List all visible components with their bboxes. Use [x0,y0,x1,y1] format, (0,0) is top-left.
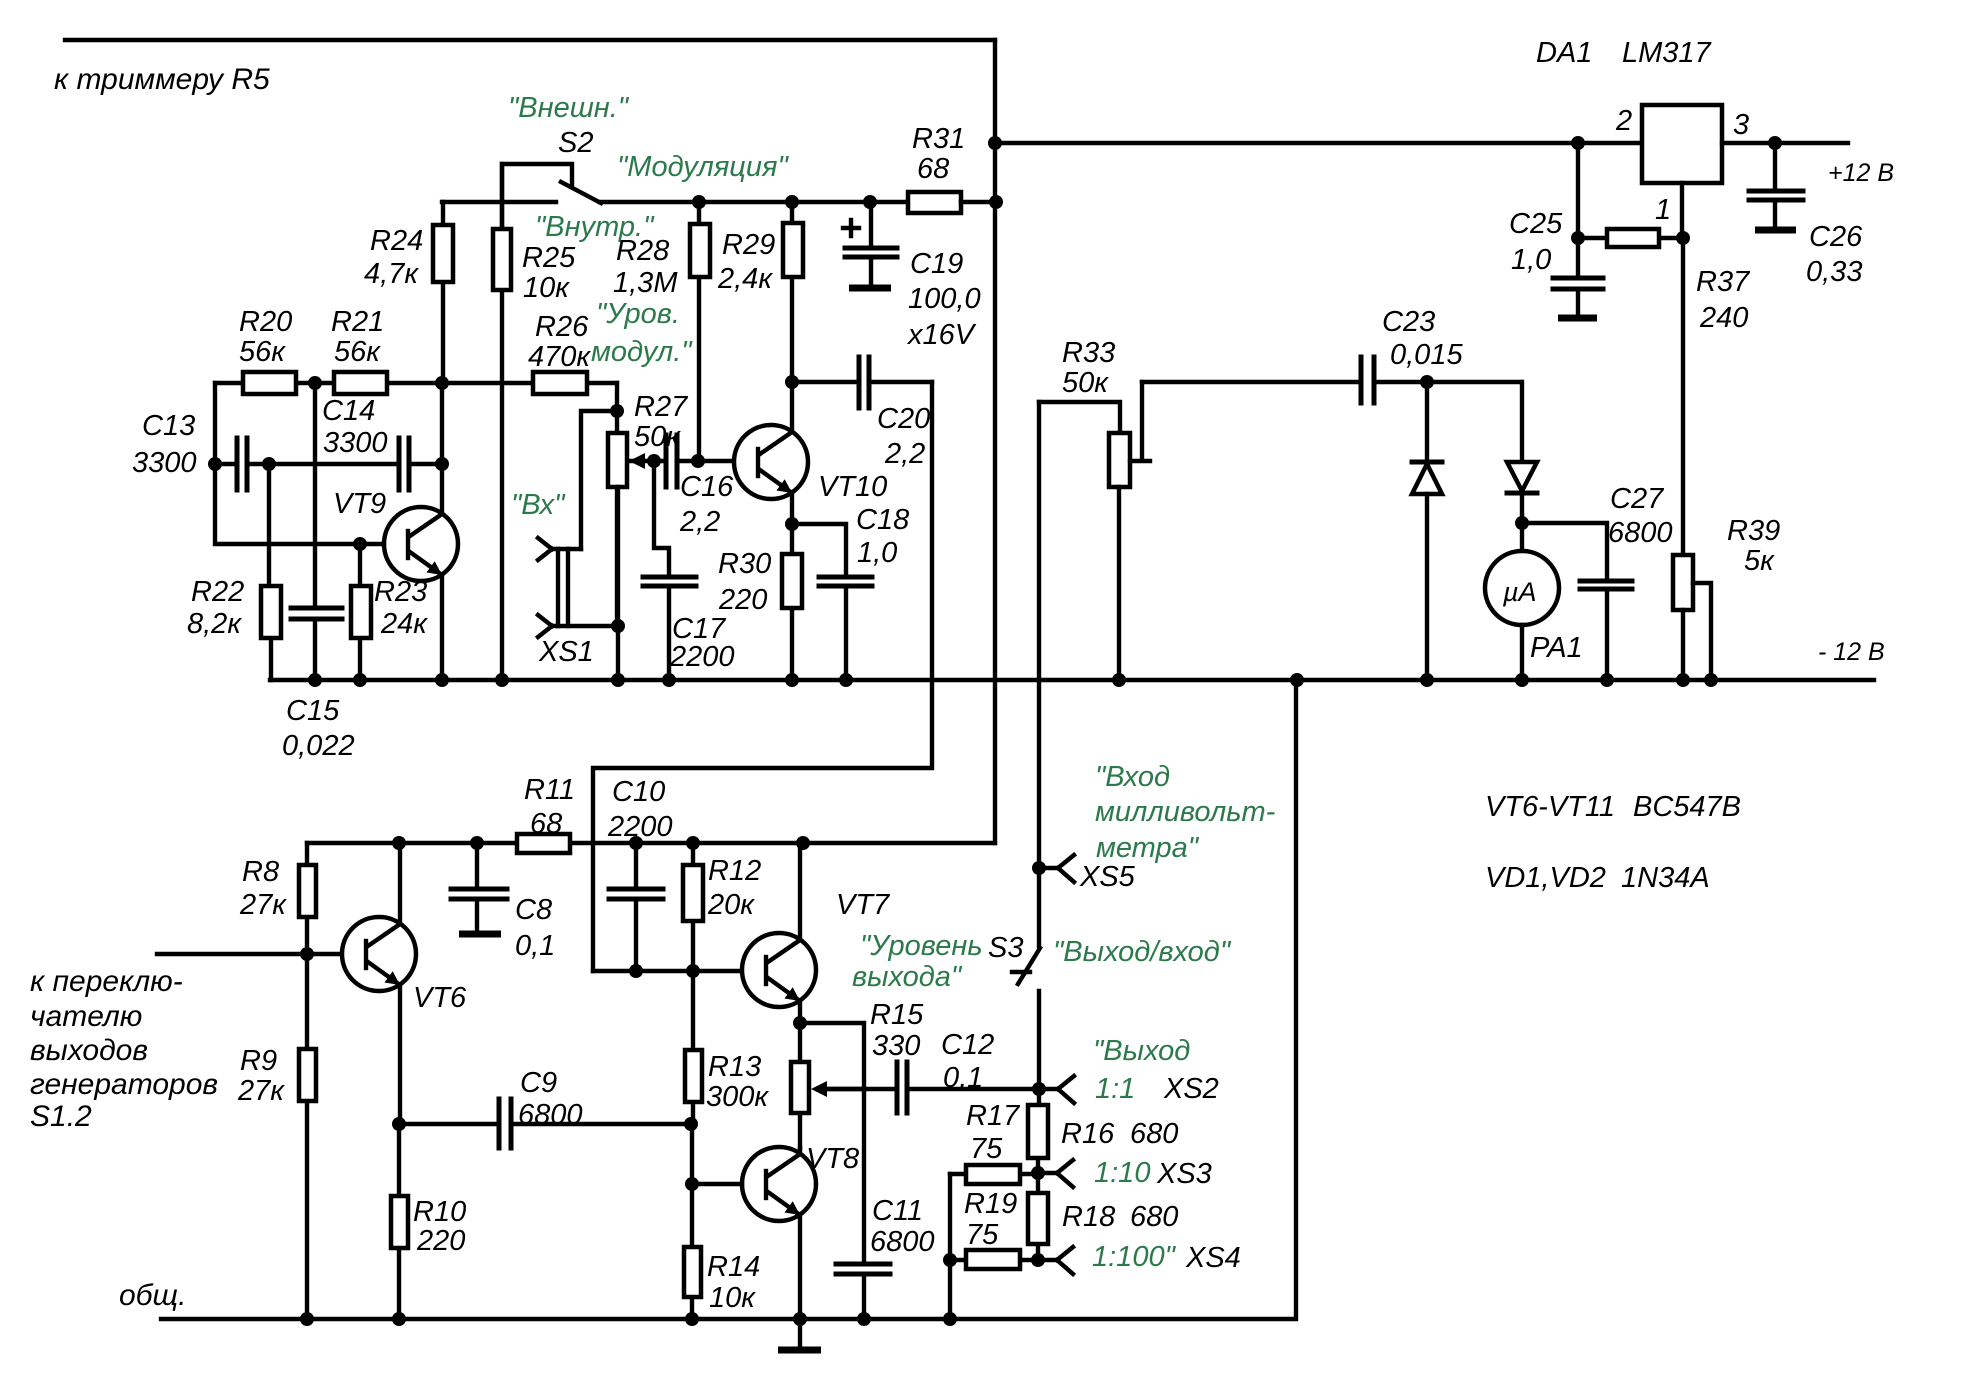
svg-text:VT9: VT9 [333,488,386,520]
node: dot VT7 emitter [793,1016,807,1030]
node: dot C16/R28/VT10 base [691,454,734,468]
svg-text:C20: C20 [877,403,930,435]
resistor R25 [493,164,576,680]
svg-text:C23: C23 [1382,306,1435,338]
resistor R28 [613,202,710,461]
svg-text:0,022: 0,022 [282,730,355,762]
svg-text:220: 220 [416,1225,465,1257]
resistor R11 [517,774,575,853]
svg-text:2: 2 [1615,105,1632,137]
resistor R19 [950,1188,1038,1269]
node: dot VT10 emitter / C18 [785,517,799,531]
capacitor C11 [836,1195,935,1320]
wire: attenuator left leg [943,1174,957,1319]
svg-text:DA1: DA1 [1536,37,1592,69]
svg-text:C13: C13 [142,410,195,442]
resistor R31 [908,123,996,213]
svg-text:2200: 2200 [607,811,673,843]
svg-text:1:1: 1:1 [1095,1073,1135,1105]
resistor R26 [528,311,591,394]
svg-text:68: 68 [917,153,949,185]
svg-text:XS1: XS1 [538,636,594,668]
svg-text:330: 330 [872,1030,920,1062]
text: Модуляция (green) [617,151,790,183]
capacitor C10 [607,776,673,971]
svg-text:R13: R13 [708,1051,761,1083]
svg-text:XS5: XS5 [1079,861,1136,893]
wire: millivoltmeter input line x=1038 [1037,402,1041,946]
svg-text:R22: R22 [191,576,244,608]
svg-text:"Уров.: "Уров. [596,298,680,330]
svg-text:300к: 300к [706,1081,769,1113]
resistor R23 [351,544,428,680]
svg-text:R27: R27 [634,391,689,423]
svg-text:R29: R29 [722,229,775,261]
svg-text:R23: R23 [374,576,427,608]
diode VD1 [1412,382,1442,680]
resistor R30 [718,524,802,680]
resistor R10 [391,1124,466,1319]
svg-text:50к: 50к [1062,367,1109,399]
node: wiper junction dot [647,454,661,468]
resistor R24 [364,202,453,383]
text: Внутр. (green) [535,211,655,243]
wire: VT6 base input [157,947,342,961]
svg-text:1:10: 1:10 [1094,1157,1150,1189]
svg-text:XS3: XS3 [1156,1158,1212,1190]
svg-text:VT6: VT6 [413,982,467,1014]
svg-text:VT7: VT7 [836,889,891,921]
svg-text:1,0: 1,0 [1511,244,1551,276]
switch S3 [988,932,1040,1089]
svg-text:R11: R11 [524,774,575,806]
resistor R16 [1028,1089,1178,1173]
svg-text:R25: R25 [522,242,576,274]
pin 1 label [1655,194,1671,226]
svg-text:R8: R8 [242,856,279,888]
svg-text:75: 75 [966,1219,999,1251]
svg-text:"Вх": "Вх" [511,489,566,521]
svg-text:S1.2: S1.2 [30,1100,92,1133]
svg-text:20к: 20к [707,889,755,921]
svg-text:4,7к: 4,7к [364,258,419,290]
svg-text:2,4к: 2,4к [717,263,773,295]
svg-text:R16: R16 [1061,1118,1115,1150]
svg-text:470к: 470к [528,341,591,373]
wire: left leg down to VT9 base [215,383,384,544]
svg-text:R10: R10 [413,1196,466,1228]
wire: main vertical feed x=995 from top bus down to lower section [993,40,997,843]
svg-text:3: 3 [1733,109,1749,141]
svg-text:220: 220 [718,584,767,616]
text: S2 label [558,127,593,159]
node: dot XS3 [1031,1166,1045,1180]
wire: bottom common rail [161,680,1296,1319]
svg-text:C15: C15 [286,695,340,727]
svg-text:1: 1 [1655,194,1671,226]
svg-text:R24: R24 [370,225,423,257]
resistor R9 [237,954,316,1319]
svg-text:R17: R17 [966,1100,1021,1132]
svg-text:чателю: чателю [30,1000,142,1033]
ground below VT8 emitter [778,1319,821,1350]
svg-text:C8: C8 [515,894,552,926]
svg-text:выходов: выходов [30,1034,148,1067]
svg-text:100,0: 100,0 [908,283,981,315]
capacitor C18 [792,504,909,680]
svg-text:к триммеру R5: к триммеру R5 [54,63,270,96]
svg-text:10к: 10к [709,1282,756,1314]
svg-text:C9: C9 [520,1067,557,1099]
wire: lower section top bus y=843 [307,841,995,845]
text: Вход милливольтметра (green) [1095,761,1275,864]
svg-text:2200: 2200 [669,641,735,673]
text: +12 В [1828,159,1894,187]
capacitor C9 [399,1067,691,1148]
text: - 12 В [1818,638,1885,666]
svg-text:XS4: XS4 [1185,1242,1241,1274]
diode VD2 [1507,382,1537,523]
text: Выход (green) [1093,1035,1190,1067]
node: dot VD2 / PA1 / C27 [1515,516,1529,530]
text: общ. [119,1279,186,1312]
capacitor C14 [262,395,449,490]
connector XS3 [1038,1157,1212,1190]
svg-text:5к: 5к [1744,545,1775,577]
svg-text:"Выход/вход": "Выход/вход" [1053,936,1232,968]
svg-text:µA: µA [1502,577,1537,607]
svg-text:к переклю-: к переклю- [30,965,183,998]
svg-text:"Вход: "Вход [1095,761,1170,793]
node: bottom rail dots [300,1312,957,1326]
svg-text:2,2: 2,2 [679,506,720,538]
svg-text:R31: R31 [912,123,965,155]
svg-text:R26: R26 [535,311,589,343]
node: dot XS4 [1031,1253,1045,1267]
svg-text:R30: R30 [718,548,771,580]
wire: -12V rail [270,678,1874,682]
svg-text:8,2к: 8,2к [187,608,242,640]
svg-text:27к: 27к [237,1075,285,1107]
text: Вх (green) [511,489,566,521]
svg-text:C19: C19 [910,248,963,280]
svg-text:C27: C27 [1610,483,1665,515]
trimmer R39 [1673,515,1780,681]
capacitor C19 (electrolytic) [843,202,981,351]
capacitor C13 [132,410,269,490]
resistor R29 [717,202,803,382]
connector XS1 [538,487,625,680]
connector XS4 [1038,1241,1241,1274]
svg-text:C25: C25 [1509,208,1563,240]
svg-text:LM317: LM317 [1622,37,1713,69]
resistor R17 [950,1100,1038,1184]
wire: DA1 pin1 down to R39 [1682,183,1683,555]
capacitor C17 [643,461,735,680]
svg-text:C16: C16 [680,471,734,503]
IC DA1 LM317 [1536,37,1722,183]
svg-text:R18: R18 [1062,1201,1115,1233]
svg-text:VD1,VD2: VD1,VD2 [1485,862,1606,894]
svg-text:- 12 В: - 12 В [1818,638,1885,666]
svg-text:C11: C11 [872,1195,923,1227]
transistor VT9 [333,383,458,680]
svg-text:R33: R33 [1062,337,1115,369]
svg-text:C26: C26 [1809,221,1863,253]
svg-text:27к: 27к [239,889,287,921]
svg-text:56к: 56к [239,336,286,368]
svg-text:R12: R12 [708,855,761,887]
switch S2 [442,164,908,229]
svg-text:0,015: 0,015 [1390,339,1463,371]
connector XS5 [1032,855,1136,893]
svg-text:3300: 3300 [132,447,197,479]
wire: +12V feed to DA1 [995,141,1642,145]
svg-text:68: 68 [530,808,562,840]
wire: line to trimmer R5 (top bus) [65,38,995,42]
text: to generator outputs switch [30,965,218,1133]
resistor R18 [1028,1173,1178,1260]
capacitor C25 [1509,136,1603,318]
svg-text:2,2: 2,2 [884,438,925,470]
capacitor C27 [1522,483,1673,681]
svg-text:1N34A: 1N34A [1621,862,1710,894]
svg-text:0,33: 0,33 [1806,256,1862,288]
svg-text:10к: 10к [523,272,570,304]
potentiometer R27 [608,391,689,626]
wire: C20 coupling down to lower section [593,382,932,971]
capacitor C26 [1749,143,1863,288]
node: dots on 843 bus [392,836,810,850]
node: dot VT10 collector / C20 [785,375,799,389]
svg-text:75: 75 [970,1133,1003,1165]
svg-text:R37: R37 [1696,266,1751,298]
svg-text:3300: 3300 [323,427,388,459]
potentiometer R33 [1039,337,1150,680]
transistor VT10 [734,382,887,524]
resistor R14 [684,1184,760,1319]
svg-text:"Выход: "Выход [1093,1035,1190,1067]
svg-text:"Уровень: "Уровень [860,930,983,962]
resistor R21 [331,306,387,394]
svg-text:генераторов: генераторов [30,1068,218,1101]
resistor R12 [683,843,761,971]
svg-text:VT6-VT11: VT6-VT11 [1485,791,1615,823]
svg-text:6800: 6800 [870,1226,935,1258]
capacitor C15 [282,383,355,762]
svg-text:общ.: общ. [119,1279,186,1312]
pin 2 label [1615,105,1632,137]
resistor R8 [239,843,316,954]
svg-text:S2: S2 [558,127,593,159]
svg-text:C12: C12 [941,1029,994,1061]
wire: R20/R21 row feed [215,381,617,385]
transistor VT6 [342,843,467,1124]
svg-text:R20: R20 [239,306,292,338]
node: dot R21/R24/VT9 collector [435,376,449,390]
svg-text:24к: 24к [380,608,428,640]
svg-text:680: 680 [1130,1201,1178,1233]
svg-text:S3: S3 [988,932,1023,964]
capacitor C20 [792,357,932,470]
capacitor C23 [1142,306,1521,403]
svg-text:XS2: XS2 [1163,1073,1219,1105]
svg-text:6800: 6800 [1608,517,1673,549]
text: к триммеру R5 [54,63,270,96]
resistor R37 (240) between C25 node and pin 1 [1571,229,1751,334]
transistor VT8 [742,1143,859,1320]
svg-text:выхода": выхода" [852,961,963,993]
trimmer R15 [791,999,924,1148]
wire: DA1 output to +12V [1722,136,1848,150]
pin 3 label [1733,109,1749,141]
wire: R26 to R27 top node [581,383,624,549]
svg-text:680: 680 [1130,1118,1178,1150]
capacitor C12 [822,1029,1039,1113]
svg-text:x16V: x16V [906,319,977,351]
svg-text:1,0: 1,0 [857,537,897,569]
transistor VT7 [742,843,891,1023]
svg-text:R28: R28 [616,235,669,267]
svg-text:+12 В: +12 В [1828,159,1894,187]
svg-text:C14: C14 [322,395,375,427]
svg-text:R14: R14 [707,1251,760,1283]
svg-text:метра": метра" [1096,832,1200,864]
wire: VT8 base [685,1177,742,1191]
svg-text:C18: C18 [856,504,909,536]
text: Внешн. (green) [508,92,630,124]
node: junction dots on 202 bus [692,136,1003,209]
text: Выход/вход (green) [1053,936,1232,968]
node: dot R20/R21 [308,376,322,390]
text: transistor types [1485,791,1741,823]
capacitor C16 [666,435,734,538]
wire: VT7 base row y=971 [593,964,742,978]
svg-text:R9: R9 [240,1045,277,1077]
text: Уровень выхода (green) [852,930,983,993]
svg-text:56к: 56к [334,336,381,368]
resistor R13 [685,971,769,1124]
svg-text:"Модуляция": "Модуляция" [617,151,790,183]
node: dot VT6 emitter / C9 / R10 [392,1117,406,1131]
text: Уров. модул. (green) [591,298,693,368]
node: dot VT9 base / R23 [353,537,367,551]
meter PA1 [1485,523,1583,681]
svg-text:милливольт-: милливольт- [1095,796,1275,828]
svg-text:1,3М: 1,3М [613,267,678,299]
svg-text:R15: R15 [870,999,924,1031]
svg-text:VT8: VT8 [806,1143,859,1175]
capacitor C8 [451,843,555,962]
svg-text:VT10: VT10 [818,471,887,503]
svg-text:модул.": модул." [591,336,693,368]
wire: VT7 emitter to C11 branch [800,1023,864,1262]
svg-text:BC547B: BC547B [1633,791,1741,823]
svg-text:PA1: PA1 [1530,632,1583,664]
svg-text:6800: 6800 [518,1099,583,1131]
resistor R22 [187,464,281,680]
svg-text:"Внешн.": "Внешн." [508,92,630,124]
svg-text:240: 240 [1699,302,1748,334]
svg-text:0,1: 0,1 [515,930,555,962]
svg-text:0,1: 0,1 [943,1062,983,1094]
svg-text:R21: R21 [331,306,384,338]
connector XS2 [1039,1073,1219,1105]
node: dot C9 / R13 / VT8 base leg [684,1117,698,1184]
svg-text:C10: C10 [612,776,665,808]
resistor R20 [239,306,296,394]
node: rail junction dots [308,673,1718,687]
svg-text:1:100": 1:100" [1092,1241,1177,1273]
svg-text:50к: 50к [634,421,681,453]
svg-text:R19: R19 [964,1188,1017,1220]
node: dot C12 / XS2 / R16 [1032,1082,1046,1096]
svg-text:R39: R39 [1727,515,1780,547]
text: diode types [1485,862,1710,894]
